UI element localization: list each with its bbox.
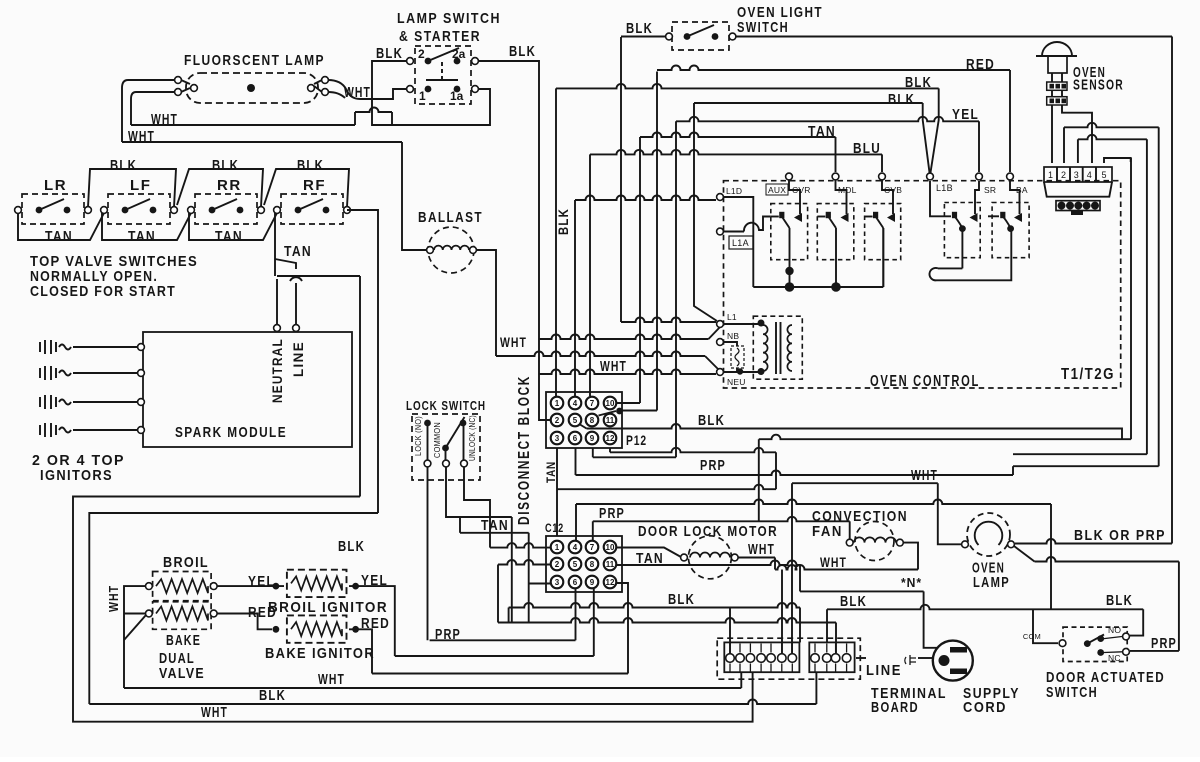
- svg-text:BAKE IGNITOR: BAKE IGNITOR: [265, 645, 375, 662]
- svg-text:& STARTER: & STARTER: [399, 28, 481, 45]
- svg-text:DISCONNECT BLOCK: DISCONNECT BLOCK: [516, 375, 533, 525]
- svg-text:BLK: BLK: [338, 538, 365, 555]
- svg-text:BLK: BLK: [212, 157, 239, 174]
- svg-text:9: 9: [590, 578, 595, 587]
- svg-text:8: 8: [590, 560, 595, 569]
- svg-text:1: 1: [555, 543, 560, 552]
- svg-text:SENSOR: SENSOR: [1073, 77, 1124, 94]
- svg-text:L1D: L1D: [726, 186, 742, 196]
- svg-text:NO: NO: [1108, 625, 1121, 635]
- svg-text:WHT: WHT: [911, 467, 938, 484]
- svg-text:WHT: WHT: [600, 358, 627, 375]
- svg-text:BLU: BLU: [853, 140, 881, 157]
- svg-text:YEL: YEL: [248, 573, 275, 590]
- svg-text:3: 3: [1074, 170, 1079, 180]
- svg-text:UNLOCK (NC): UNLOCK (NC): [468, 415, 477, 461]
- svg-text:BOARD: BOARD: [871, 699, 919, 716]
- svg-text:RF: RF: [303, 177, 326, 194]
- svg-text:TAN: TAN: [215, 228, 243, 245]
- svg-text:1: 1: [555, 399, 560, 408]
- svg-text:BLK: BLK: [668, 591, 695, 608]
- svg-text:BLK OR PRP: BLK OR PRP: [1074, 527, 1166, 544]
- svg-text:TAN: TAN: [284, 243, 312, 260]
- svg-text:TAN: TAN: [45, 228, 73, 245]
- svg-text:WHT: WHT: [748, 541, 775, 558]
- svg-text:LAMP: LAMP: [973, 574, 1010, 591]
- svg-text:NEUTRAL: NEUTRAL: [269, 338, 285, 403]
- svg-text:6: 6: [573, 578, 578, 587]
- svg-text:NC: NC: [1108, 653, 1121, 663]
- svg-text:LF: LF: [130, 177, 152, 194]
- svg-text:2: 2: [555, 416, 560, 425]
- svg-text:WHT: WHT: [128, 128, 155, 145]
- svg-text:LAMP SWITCH: LAMP SWITCH: [397, 10, 501, 27]
- svg-text:IGNITORS: IGNITORS: [40, 467, 113, 484]
- svg-text:LINE: LINE: [866, 662, 902, 679]
- svg-text:L1B: L1B: [936, 183, 953, 193]
- svg-text:3: 3: [555, 578, 560, 587]
- svg-text:COMMON: COMMON: [433, 422, 442, 458]
- svg-text:DOOR LOCK MOTOR: DOOR LOCK MOTOR: [638, 523, 778, 540]
- svg-text:BLK: BLK: [376, 45, 403, 62]
- svg-text:10: 10: [606, 543, 615, 552]
- svg-text:FLUORSCENT LAMP: FLUORSCENT LAMP: [184, 52, 325, 69]
- svg-text:4: 4: [573, 543, 578, 552]
- svg-text:BALLAST: BALLAST: [418, 209, 483, 226]
- svg-text:LINE: LINE: [290, 341, 306, 377]
- svg-text:2: 2: [555, 560, 560, 569]
- svg-text:T1/T2G: T1/T2G: [1061, 366, 1115, 383]
- svg-text:SPARK MODULE: SPARK MODULE: [175, 424, 287, 441]
- svg-text:1: 1: [419, 89, 426, 103]
- svg-text:WHT: WHT: [151, 111, 178, 128]
- svg-text:7: 7: [590, 399, 595, 408]
- svg-text:RED: RED: [966, 56, 995, 73]
- svg-text:WHT: WHT: [201, 704, 228, 721]
- svg-text:WHT: WHT: [318, 671, 345, 688]
- svg-text:FAN: FAN: [812, 523, 843, 540]
- svg-text:5: 5: [573, 560, 578, 569]
- svg-text:CLOSED FOR START: CLOSED FOR START: [30, 283, 176, 300]
- svg-text:7: 7: [590, 543, 595, 552]
- svg-text:LOCK (NO): LOCK (NO): [414, 416, 423, 456]
- svg-text:BLK: BLK: [297, 157, 324, 174]
- svg-text:TAN: TAN: [128, 228, 156, 245]
- svg-text:4: 4: [573, 399, 578, 408]
- svg-text:PRP: PRP: [435, 626, 461, 643]
- svg-text:BLK: BLK: [905, 74, 932, 91]
- svg-text:2: 2: [418, 47, 425, 61]
- svg-text:BLK: BLK: [626, 20, 653, 37]
- svg-text:BAKE: BAKE: [166, 632, 201, 649]
- svg-text:BLK: BLK: [698, 412, 725, 429]
- svg-text:PRP: PRP: [599, 505, 625, 522]
- svg-text:PRP: PRP: [700, 457, 726, 474]
- svg-text:5: 5: [573, 416, 578, 425]
- svg-text:11: 11: [606, 416, 615, 425]
- svg-text:CORD: CORD: [963, 699, 1007, 716]
- svg-text:YEL: YEL: [952, 106, 979, 123]
- svg-text:LOCK SWITCH: LOCK SWITCH: [406, 398, 486, 413]
- svg-text:NEU: NEU: [727, 377, 746, 387]
- svg-text:3: 3: [555, 434, 560, 443]
- svg-text:RR: RR: [217, 177, 242, 194]
- svg-text:2a: 2a: [452, 47, 466, 61]
- svg-text:9: 9: [590, 434, 595, 443]
- svg-text:RED: RED: [248, 604, 277, 621]
- svg-text:TAN: TAN: [808, 123, 836, 140]
- svg-text:BLK: BLK: [259, 687, 286, 704]
- svg-text:BLK: BLK: [1106, 592, 1133, 609]
- svg-text:C12: C12: [545, 521, 564, 535]
- svg-text:SWITCH: SWITCH: [1046, 684, 1098, 701]
- svg-text:BLK: BLK: [110, 157, 137, 174]
- svg-text:SWITCH: SWITCH: [737, 19, 789, 36]
- svg-text:SR: SR: [984, 185, 996, 195]
- svg-text:VALVE: VALVE: [159, 665, 205, 682]
- svg-text:BROIL IGNITOR: BROIL IGNITOR: [268, 599, 388, 616]
- svg-text:P12: P12: [626, 432, 647, 448]
- svg-text:1a: 1a: [450, 89, 464, 103]
- svg-text:L1A: L1A: [732, 238, 749, 248]
- svg-text:12: 12: [606, 434, 615, 443]
- svg-text:11: 11: [606, 560, 615, 569]
- svg-text:WHT: WHT: [820, 554, 847, 570]
- svg-text:WHT: WHT: [344, 84, 371, 101]
- svg-text:4: 4: [1087, 170, 1092, 180]
- svg-text:*N*: *N*: [901, 575, 922, 590]
- svg-text:L1: L1: [727, 312, 737, 322]
- svg-text:1: 1: [1048, 170, 1053, 180]
- svg-text:10: 10: [606, 399, 615, 408]
- svg-text:TAN: TAN: [481, 517, 509, 534]
- svg-text:TAN: TAN: [544, 461, 558, 483]
- svg-text:LR: LR: [44, 177, 67, 194]
- svg-text:COM: COM: [1023, 632, 1041, 641]
- svg-text:BLK: BLK: [840, 593, 867, 610]
- svg-text:8: 8: [590, 416, 595, 425]
- svg-text:PRP: PRP: [1151, 635, 1177, 652]
- svg-text:OVEN CONTROL: OVEN CONTROL: [870, 373, 980, 390]
- svg-text:5: 5: [1101, 170, 1106, 180]
- svg-text:12: 12: [606, 578, 615, 587]
- svg-text:WHT: WHT: [106, 585, 121, 612]
- svg-text:NB: NB: [727, 331, 739, 341]
- svg-text:BROIL: BROIL: [163, 554, 209, 571]
- svg-text:BLK: BLK: [509, 43, 536, 60]
- svg-text:6: 6: [573, 434, 578, 443]
- svg-text:BLK: BLK: [888, 91, 915, 108]
- svg-text:2: 2: [1061, 170, 1066, 180]
- svg-text:WHT: WHT: [500, 334, 527, 350]
- svg-text:AUX: AUX: [768, 185, 786, 195]
- svg-text:BLK: BLK: [555, 208, 571, 235]
